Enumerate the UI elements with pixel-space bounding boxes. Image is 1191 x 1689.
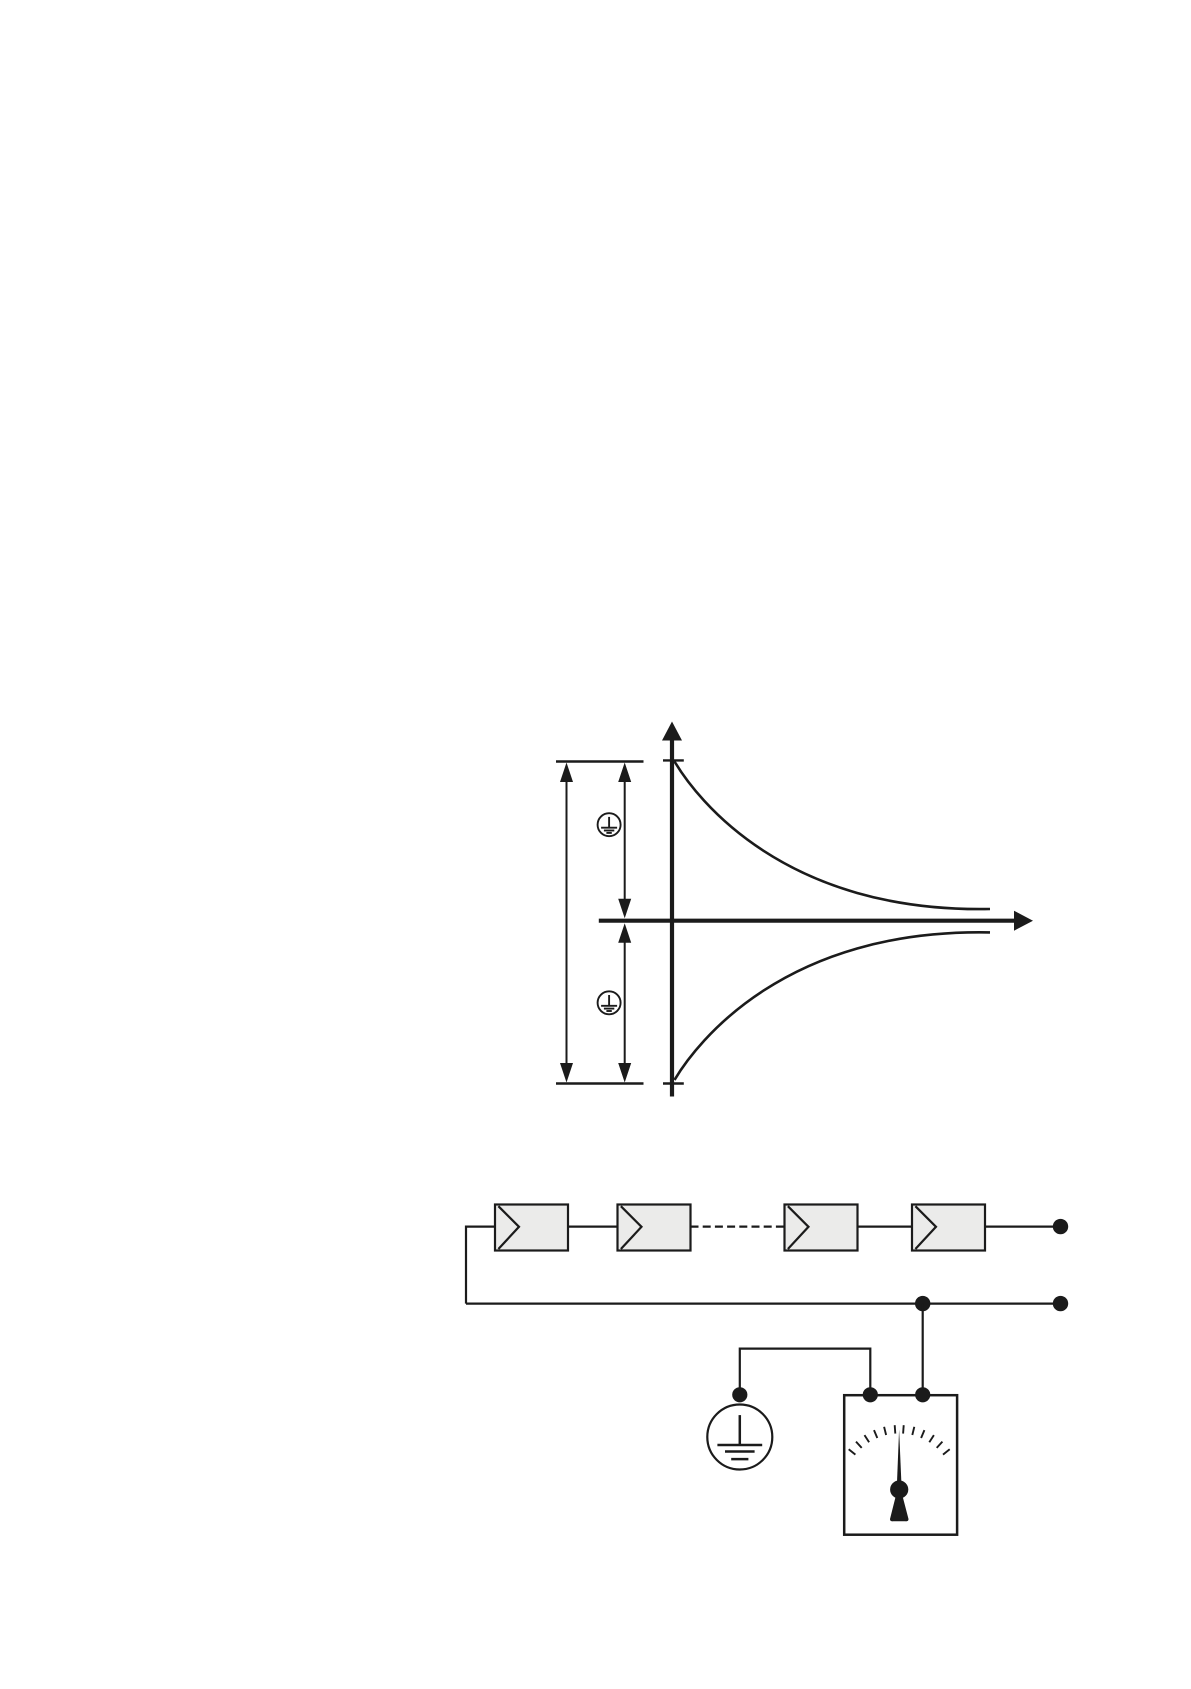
bottom extension line	[556, 1082, 644, 1084]
node at ground symbol	[732, 1387, 747, 1402]
wire: return bus	[466, 1302, 1061, 1304]
wire: ground branch from meter	[740, 1349, 871, 1395]
attenuator block 1	[495, 1205, 568, 1251]
bottom figure: attenuator chain with earth and meter	[466, 1205, 1068, 1535]
tick on vertical axis (top)	[663, 759, 684, 761]
wire: block 3 to block 4	[858, 1225, 913, 1227]
protective earth symbol (upper)	[598, 813, 621, 836]
return terminal node	[1053, 1296, 1068, 1311]
inner dimension arrow (lower half)	[618, 923, 631, 1082]
meter counterweight	[890, 1498, 909, 1522]
vertical axis	[662, 722, 682, 1097]
wire: dashed continuation block 2 to block 3	[691, 1225, 785, 1227]
wire: input feed into block 1	[466, 1227, 495, 1304]
inner dimension arrow (upper half)	[618, 763, 631, 919]
meter needle	[897, 1430, 902, 1491]
attenuator block 3	[785, 1205, 858, 1251]
wire: block 4 to output terminal	[985, 1225, 1061, 1227]
attenuator block 4	[912, 1205, 985, 1251]
lower decay curve	[675, 932, 991, 1080]
outer dimension arrow (full span)	[560, 763, 573, 1083]
top figure: field decay graph with shield distance dimensions	[556, 722, 1033, 1097]
horizontal axis	[599, 911, 1033, 931]
wire: junction down to meter	[922, 1304, 924, 1395]
meter pivot	[890, 1480, 908, 1498]
node at meter terminal (left)	[863, 1387, 878, 1402]
protective earth symbol (lower)	[598, 991, 621, 1014]
meter scale ticks	[849, 1425, 950, 1454]
upper decay curve	[675, 762, 991, 910]
tick on vertical axis (bottom)	[663, 1082, 684, 1084]
wire: block 1 to block 2	[568, 1225, 618, 1227]
node at meter terminal (right)	[915, 1387, 930, 1402]
junction node on bus	[915, 1296, 930, 1311]
output terminal node	[1053, 1219, 1068, 1234]
protective earth symbol (large)	[707, 1405, 772, 1470]
top extension line	[556, 760, 644, 762]
meter M	[844, 1395, 957, 1535]
attenuator block 2	[618, 1205, 691, 1251]
